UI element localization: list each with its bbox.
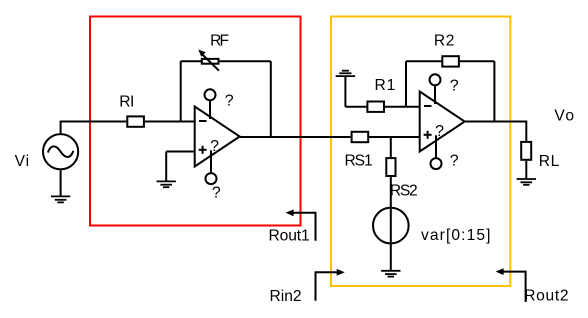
wire RL to ground	[525, 161, 527, 179]
wire Vi bottom to ground	[60, 169, 62, 196]
source var circle	[373, 208, 409, 244]
op-amp U1 V+ circle	[205, 89, 216, 100]
source Vi circle	[43, 134, 78, 169]
op-amp U2 V- circle	[431, 158, 442, 169]
resistor R1	[367, 102, 384, 112]
wire junction down to RS2	[390, 137, 392, 157]
svg-text:?: ?	[450, 78, 459, 95]
svg-text:RI: RI	[119, 93, 133, 110]
op-amp U1 triangle	[195, 107, 240, 167]
wire U1 output to RS1	[240, 136, 351, 138]
op-amp U1 plus sign	[199, 149, 207, 151]
wire ground to R1	[345, 106, 366, 108]
wire Vi top to bend	[61, 122, 127, 135]
box stage1 boundary (red)	[90, 17, 301, 226]
svg-text:RS2: RS2	[390, 183, 417, 200]
svg-text:RL: RL	[539, 153, 560, 170]
op-amp U2 V- pin	[435, 135, 437, 158]
arrow Rout2	[503, 272, 526, 302]
ground (R1) stem	[344, 76, 346, 107]
op-amp U2 triangle	[420, 92, 465, 152]
svg-text:Rin2: Rin2	[270, 288, 302, 305]
op-amp U1 V- pin	[210, 150, 212, 173]
svg-text:Vi: Vi	[15, 153, 30, 170]
source Vi sine	[48, 146, 73, 157]
resistor RL	[521, 142, 531, 160]
resistor RI	[127, 116, 144, 126]
wire feedback top right	[220, 60, 271, 62]
ground (var source)	[381, 271, 400, 277]
arrow Rout1	[293, 213, 316, 241]
wire feedback right vertical	[270, 61, 272, 137]
resistor R2	[442, 56, 459, 66]
ground (U1 +) stem	[165, 152, 167, 182]
op-amp U1 minus sign	[199, 120, 207, 122]
ground (RL)	[517, 179, 536, 185]
svg-text:Rout1: Rout1	[269, 228, 310, 245]
svg-text:RS1: RS1	[345, 153, 372, 170]
op-amp U2 V+ circle	[430, 74, 441, 85]
svg-text:R1: R1	[375, 77, 397, 94]
wire feedback left vertical	[180, 61, 182, 121]
wire RI to U1 inverting input	[145, 121, 195, 123]
svg-text:RF: RF	[210, 33, 228, 50]
resistor RF arrow	[203, 55, 219, 71]
source var line through	[390, 208, 392, 271]
ground (Vi)	[51, 196, 70, 202]
wire RS2 to source var	[390, 177, 392, 208]
wire U2 output to RL bend	[465, 122, 527, 141]
svg-text:Rout2: Rout2	[524, 288, 569, 305]
op-amp U2 minus sign	[424, 105, 432, 107]
resistor RF	[202, 59, 219, 64]
wire feedback2 top right	[460, 60, 495, 62]
wire ground to U1 non-inverting input	[166, 151, 195, 153]
ground (R1, inverted) bars	[336, 71, 355, 76]
box stage2 boundary (yellow)	[331, 17, 510, 287]
op-amp U1 V- circle	[206, 173, 217, 184]
svg-text:R2: R2	[434, 32, 455, 49]
ground (U1 +) bars	[157, 181, 176, 187]
op-amp U1 V+ pin	[209, 100, 211, 119]
wire RS1 to U2 non-inverting input	[369, 136, 420, 138]
svg-text:?: ?	[450, 153, 459, 170]
wire feedback top left	[181, 60, 201, 62]
wire R1 to U2 inverting input	[385, 106, 420, 108]
arrow Rin2	[316, 272, 338, 300]
svg-text:?: ?	[435, 123, 444, 140]
svg-text:var[0:15]: var[0:15]	[421, 227, 492, 244]
svg-text:?: ?	[210, 138, 219, 155]
svg-text:Vo: Vo	[554, 108, 575, 125]
op-amp U2 plus sign	[424, 134, 432, 136]
wire feedback2 left vertical	[405, 61, 407, 106]
op-amp U2 V+ pin	[434, 85, 436, 104]
resistor RS2	[386, 158, 395, 176]
svg-text:?: ?	[212, 184, 221, 201]
wire feedback2 top left	[406, 60, 441, 62]
wire feedback2 right vertical	[493, 61, 495, 121]
resistor RS1	[352, 132, 369, 142]
svg-text:?: ?	[225, 93, 234, 110]
